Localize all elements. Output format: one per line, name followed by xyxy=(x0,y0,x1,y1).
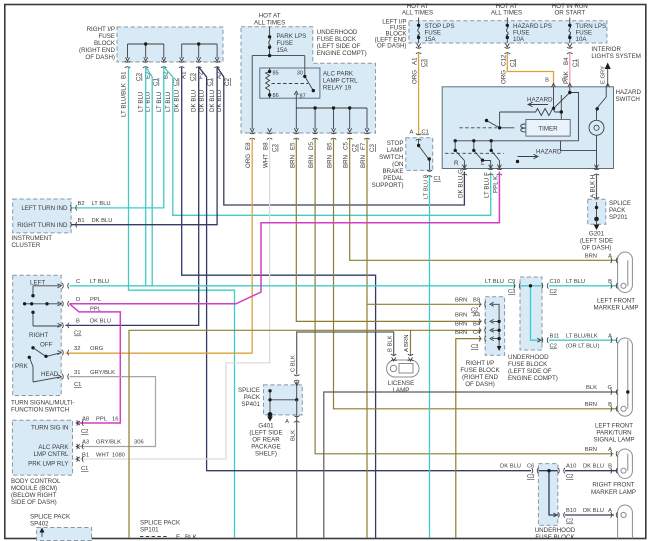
svg-text:SPLICE: SPLICE xyxy=(609,200,631,207)
svg-text:ALL TIMES: ALL TIMES xyxy=(254,20,285,27)
turn signal / multifunction switch box xyxy=(13,275,62,395)
svg-text:PEDAL: PEDAL xyxy=(383,175,404,182)
svg-text:C2: C2 xyxy=(81,429,88,435)
svg-text:BODY CONTROL: BODY CONTROL xyxy=(11,478,61,485)
svg-text:LAMP CTRL: LAMP CTRL xyxy=(323,78,358,85)
svg-text:B1: B1 xyxy=(121,71,128,79)
svg-text:A: A xyxy=(608,447,612,453)
svg-text:SP402: SP402 xyxy=(30,521,49,528)
svg-text:BRN: BRN xyxy=(308,155,315,168)
wire BRN C5 to left front marker A xyxy=(350,138,618,260)
svg-text:C2: C2 xyxy=(566,474,573,480)
svg-text:LAMP: LAMP xyxy=(387,147,404,154)
svg-text:BRN: BRN xyxy=(585,254,597,260)
interior lights system arrow xyxy=(591,46,641,87)
svg-text:PPL K: PPL K xyxy=(492,175,499,193)
svg-text:B1: B1 xyxy=(82,453,89,459)
svg-text:32: 32 xyxy=(74,346,80,352)
right I/P fuse block (lower) box xyxy=(485,297,504,356)
relay switch 30-87 xyxy=(296,68,313,98)
svg-text:C12: C12 xyxy=(500,54,507,66)
left I/P fuse block (left end of dash) box xyxy=(409,21,607,43)
svg-text:B9: B9 xyxy=(473,298,480,304)
svg-text:CLUSTER: CLUSTER xyxy=(12,242,41,249)
svg-text:C1: C1 xyxy=(572,59,579,67)
svg-text:(RIGHT END: (RIGHT END xyxy=(462,374,499,381)
svg-text:A BLK H: A BLK H xyxy=(590,175,597,198)
underhood fuse block (mid right) box xyxy=(520,277,542,350)
svg-text:LT BLU: LT BLU xyxy=(92,201,111,207)
wire ORG hazard fuse to hazard B xyxy=(507,53,553,87)
svg-text:OF DASH): OF DASH) xyxy=(465,381,495,388)
svg-text:OR START: OR START xyxy=(554,10,585,17)
svg-text:DK BLU: DK BLU xyxy=(191,90,198,112)
svg-text:C1: C1 xyxy=(153,78,160,86)
svg-text:FUSE BLOCK: FUSE BLOCK xyxy=(535,534,575,541)
svg-text:BRN: BRN xyxy=(455,322,467,328)
wire LT BLU E2 xyxy=(145,67,147,286)
svg-text:B4: B4 xyxy=(563,57,570,65)
fuse HAZARD LPS 10A xyxy=(506,18,552,44)
svg-text:LT BLU F: LT BLU F xyxy=(484,172,491,198)
svg-text:OF DASH): OF DASH) xyxy=(85,54,115,61)
ALC park lamp ctrl relay 19 xyxy=(260,68,320,98)
svg-text:C3: C3 xyxy=(190,73,197,81)
svg-text:85: 85 xyxy=(273,71,279,77)
svg-text:ORG: ORG xyxy=(412,70,419,84)
svg-text:(OR LT BLU): (OR LT BLU) xyxy=(566,344,599,350)
svg-text:PPL: PPL xyxy=(90,297,102,303)
svg-text:BRN: BRN xyxy=(343,155,350,168)
svg-text:B BLK: B BLK xyxy=(387,335,393,352)
svg-text:C BLK: C BLK xyxy=(290,355,296,372)
svg-text:BLK: BLK xyxy=(290,430,296,441)
svg-text:LT BLU B: LT BLU B xyxy=(423,174,429,199)
svg-text:PRK: PRK xyxy=(15,363,29,370)
svg-text:LT BLU: LT BLU xyxy=(165,92,172,112)
svg-text:LT BLU/BLK: LT BLU/BLK xyxy=(121,82,128,117)
svg-text:BRN: BRN xyxy=(585,447,597,453)
svg-text:SP201: SP201 xyxy=(609,214,628,221)
switch blade B-C xyxy=(554,87,579,141)
svg-text:LEFT FRONT: LEFT FRONT xyxy=(597,298,635,305)
instrument cluster box xyxy=(13,199,71,233)
svg-text:PARK LPS: PARK LPS xyxy=(277,33,307,40)
svg-text:C3: C3 xyxy=(527,474,534,480)
svg-text:BRN: BRN xyxy=(455,298,467,304)
svg-text:FUNCTION SWITCH: FUNCTION SWITCH xyxy=(11,407,69,414)
svg-text:A: A xyxy=(608,508,612,514)
svg-text:WHT: WHT xyxy=(96,453,110,459)
svg-text:LT BLU: LT BLU xyxy=(485,279,504,285)
wire DK BLU C2 to hazard R xyxy=(217,67,464,205)
svg-text:(BELOW RIGHT: (BELOW RIGHT xyxy=(11,492,57,499)
svg-text:SPLICE PACK: SPLICE PACK xyxy=(140,520,181,527)
svg-text:SHELF): SHELF) xyxy=(255,451,277,458)
wire LT BLU/BLK B11 to park/turn lamp A xyxy=(549,339,618,341)
svg-text:B: B xyxy=(545,78,549,84)
splice pack SP401 xyxy=(238,387,261,408)
svg-text:TURN SIG IN: TURN SIG IN xyxy=(31,425,68,432)
svg-text:C5: C5 xyxy=(343,142,350,150)
svg-text:INTERIOR: INTERIOR xyxy=(591,46,621,53)
svg-text:C: C xyxy=(562,78,566,84)
svg-text:C2: C2 xyxy=(550,289,557,295)
svg-text:BRN: BRN xyxy=(455,313,467,319)
svg-text:E GRY: E GRY xyxy=(601,66,607,84)
svg-text:BRN: BRN xyxy=(455,330,467,336)
svg-text:PACKAGE: PACKAGE xyxy=(251,444,280,451)
svg-text:DK BLU: DK BLU xyxy=(199,90,206,112)
svg-text:A1: A1 xyxy=(412,57,419,65)
underhood exits xyxy=(250,128,370,139)
timer switch contact xyxy=(487,121,515,128)
svg-text:SPLICE: SPLICE xyxy=(238,387,260,394)
svg-text:INSTRUMENT: INSTRUMENT xyxy=(12,235,53,242)
svg-text:HOT AT: HOT AT xyxy=(259,13,281,20)
svg-text:B5: B5 xyxy=(327,142,334,150)
svg-text:B: B xyxy=(608,279,612,285)
svg-text:C3: C3 xyxy=(136,73,143,81)
ground G401 xyxy=(267,417,273,422)
svg-text:15A: 15A xyxy=(277,47,289,54)
svg-text:LICENSE: LICENSE xyxy=(388,380,414,387)
svg-text:RIGHT I/P: RIGHT I/P xyxy=(466,360,494,367)
svg-text:TURN SIGNAL/MULTI-: TURN SIGNAL/MULTI- xyxy=(11,400,74,407)
svg-text:B10: B10 xyxy=(566,508,576,514)
svg-text:C1: C1 xyxy=(434,176,441,182)
wire BLK hazard H to SP201 xyxy=(596,174,598,199)
svg-text:G201: G201 xyxy=(589,231,605,238)
svg-text:1080: 1080 xyxy=(112,453,125,459)
underhood fuse block (left side of engine compt) box xyxy=(241,27,376,133)
svg-text:LAMP: LAMP xyxy=(393,387,410,394)
svg-text:C1: C1 xyxy=(422,130,429,136)
ground G201 xyxy=(596,219,598,226)
svg-text:D: D xyxy=(76,297,80,303)
svg-text:SPLICE PACK: SPLICE PACK xyxy=(30,514,71,521)
svg-text:ENGINE COMPT): ENGINE COMPT) xyxy=(508,375,558,382)
R contact xyxy=(455,141,464,169)
svg-text:C4: C4 xyxy=(473,330,481,336)
svg-text:UNDERHOOD: UNDERHOOD xyxy=(535,527,576,534)
svg-text:R: R xyxy=(454,160,459,167)
svg-text:ALL TIMES: ALL TIMES xyxy=(402,10,433,17)
wire LT BLU C2 to hazard L xyxy=(164,67,491,215)
svg-text:C2: C2 xyxy=(173,78,180,86)
svg-text:SWITCH: SWITCH xyxy=(616,96,640,103)
svg-text:G: G xyxy=(607,385,612,391)
svg-text:C3: C3 xyxy=(272,144,279,152)
wire BRN rear feed to B4 row xyxy=(129,330,482,538)
svg-text:(LEFT SIDE OF: (LEFT SIDE OF xyxy=(317,43,361,50)
svg-text:(LEFT SIDE OF: (LEFT SIDE OF xyxy=(508,368,552,375)
fuse TURN LPS 10A xyxy=(568,18,606,44)
svg-text:ORG: ORG xyxy=(500,70,507,84)
svg-text:OF DASH): OF DASH) xyxy=(377,43,407,50)
svg-text:30: 30 xyxy=(297,71,303,77)
svg-text:RIGHT FRONT: RIGHT FRONT xyxy=(592,482,634,489)
svg-text:306: 306 xyxy=(134,440,144,446)
svg-text:ALC PARK: ALC PARK xyxy=(323,71,354,78)
svg-text:A8: A8 xyxy=(82,417,89,423)
wire BRN B5 to park/turn lamp B xyxy=(334,138,618,409)
svg-text:SWITCH: SWITCH xyxy=(379,154,403,161)
svg-text:DK BLU: DK BLU xyxy=(90,319,111,325)
wire BRN C4 row off page xyxy=(456,339,482,538)
pin labels rotated xyxy=(121,71,232,86)
wire LT BLU C1 diag xyxy=(146,67,153,286)
svg-text:(RIGHT END: (RIGHT END xyxy=(79,47,116,54)
relay armature dashed xyxy=(272,83,309,85)
svg-text:C2: C2 xyxy=(224,78,231,86)
svg-text:D5: D5 xyxy=(308,142,315,150)
svg-text:E5: E5 xyxy=(289,142,296,150)
svg-text:DK BLU: DK BLU xyxy=(500,464,521,470)
hazard internals xyxy=(445,87,606,169)
svg-text:B11: B11 xyxy=(550,334,560,340)
svg-text:SP101: SP101 xyxy=(140,527,159,534)
svg-text:HAZARD: HAZARD xyxy=(527,97,553,104)
svg-text:FUSE BLOCK: FUSE BLOCK xyxy=(508,361,548,368)
lower bus xyxy=(455,140,578,142)
svg-text:OF DASH): OF DASH) xyxy=(582,245,612,252)
svg-text:STOP: STOP xyxy=(387,140,404,147)
svg-text:PACK: PACK xyxy=(609,207,626,214)
svg-text:C2: C2 xyxy=(550,344,557,350)
right I/P fuse block (top, right end of dash) box xyxy=(117,27,223,62)
wire color labels rotated xyxy=(121,82,223,117)
svg-text:BRAKE: BRAKE xyxy=(383,168,404,175)
svg-text:ALL TIMES: ALL TIMES xyxy=(491,10,522,17)
svg-text:G401: G401 xyxy=(258,423,274,430)
svg-text:LEFT TURN IND: LEFT TURN IND xyxy=(21,205,68,212)
svg-text:RELAY 19: RELAY 19 xyxy=(323,85,352,92)
wire DK BLU A10 to right front marker B xyxy=(565,470,618,472)
wire LT BLU/BLK B1 xyxy=(129,67,235,538)
wire LT BLU C10 to marker lamp B xyxy=(549,285,618,287)
svg-text:B4: B4 xyxy=(473,322,481,328)
left front park/turn signal lamp xyxy=(585,334,635,444)
wire ORG E8 + turn switch 32 row xyxy=(66,138,253,353)
svg-text:A10: A10 xyxy=(566,464,576,470)
svg-text:MODULE (BCM): MODULE (BCM) xyxy=(11,485,57,492)
relay output bus xyxy=(296,98,367,129)
relay coil xyxy=(266,68,270,98)
svg-text:DK BLU G: DK BLU G xyxy=(457,169,464,198)
svg-text:C: C xyxy=(76,279,80,285)
svg-text:C1: C1 xyxy=(509,59,516,67)
svg-text:C2: C2 xyxy=(352,144,359,152)
stop lamp switch box xyxy=(406,138,433,171)
svg-text:10A: 10A xyxy=(513,36,525,43)
svg-text:C3: C3 xyxy=(471,344,478,350)
svg-text:E: E xyxy=(176,534,180,541)
svg-text:B: B xyxy=(608,402,612,408)
svg-text:86: 86 xyxy=(273,93,279,99)
splice pack SP402 xyxy=(30,514,71,528)
stop lamp switch contacts xyxy=(416,134,432,177)
svg-text:GRY/BLK: GRY/BLK xyxy=(90,370,115,376)
svg-text:BRN: BRN xyxy=(585,402,597,408)
svg-text:C1: C1 xyxy=(207,78,214,86)
right front park/turn signal lamp (cut off) xyxy=(608,505,632,539)
svg-text:C2: C2 xyxy=(74,331,81,337)
svg-text:BRN: BRN xyxy=(360,155,367,168)
svg-text:A: A xyxy=(410,130,414,136)
fuse PARK LPS 15A xyxy=(268,27,306,56)
svg-text:LT BLU: LT BLU xyxy=(566,279,585,285)
svg-text:FUSE BLOCK: FUSE BLOCK xyxy=(460,367,500,374)
svg-text:MARKER LAMP: MARKER LAMP xyxy=(591,489,636,496)
wire DK BLU F2 to turn switch B xyxy=(66,67,199,325)
K contact xyxy=(491,141,499,169)
svg-text:A BRN: A BRN xyxy=(404,335,410,352)
fuse block bus bars xyxy=(128,44,218,58)
svg-text:ENGINE COMPT): ENGINE COMPT) xyxy=(317,50,367,57)
svg-text:HAZARD: HAZARD xyxy=(536,149,562,156)
underhood fuse block (bottom right) box xyxy=(538,464,557,526)
wire PNK turn fuse to hazard C xyxy=(569,53,571,87)
svg-text:A: A xyxy=(608,254,612,260)
svg-text:DK BLU: DK BLU xyxy=(583,508,604,514)
wire DK BLU A1 xyxy=(182,67,376,538)
wire DK BLU B10 to right front park/turn A xyxy=(565,514,614,516)
svg-text:C3: C3 xyxy=(508,289,515,295)
svg-text:UNDERHOOD: UNDERHOOD xyxy=(317,29,358,36)
right front marker lamp xyxy=(585,447,636,496)
hazard bottom exits xyxy=(462,165,600,176)
svg-text:HAZARD: HAZARD xyxy=(616,89,642,96)
wire BLK SP401 A off page xyxy=(296,400,298,538)
hazard switch box xyxy=(442,87,613,169)
wire ORG stop fuse to stop lamp switch xyxy=(418,53,420,135)
svg-text:16: 16 xyxy=(112,417,118,423)
svg-text:RIGHT TURN IND: RIGHT TURN IND xyxy=(17,222,68,229)
svg-text:OF REAR: OF REAR xyxy=(252,437,280,444)
svg-text:BLK: BLK xyxy=(185,534,198,541)
svg-text:BLK: BLK xyxy=(586,385,597,391)
wire DK BLU A2 to cluster xyxy=(72,67,218,225)
wire BRN F7 to B9 and off page xyxy=(367,138,482,538)
wire BRN license lamp A to B4 xyxy=(410,330,412,356)
svg-text:F7: F7 xyxy=(360,142,367,150)
svg-text:(LEFT SIDE: (LEFT SIDE xyxy=(580,238,613,245)
internal bus to relay xyxy=(252,56,305,129)
svg-text:HEAD: HEAD xyxy=(41,371,59,378)
wire LT BLU stop switch B off page xyxy=(429,176,431,538)
L contact xyxy=(474,141,491,169)
svg-text:MARKER LAMP: MARKER LAMP xyxy=(593,305,638,312)
splice pack SP201 xyxy=(588,199,606,224)
resistor xyxy=(500,95,562,128)
svg-text:RIGHT: RIGHT xyxy=(29,332,48,339)
svg-text:C6: C6 xyxy=(527,464,534,470)
svg-text:C3: C3 xyxy=(421,59,428,67)
svg-text:C1: C1 xyxy=(81,466,88,472)
svg-text:ALC PARK: ALC PARK xyxy=(38,444,69,451)
svg-text:ORG: ORG xyxy=(245,154,252,168)
svg-text:L: L xyxy=(481,160,485,167)
svg-text:15A: 15A xyxy=(425,36,437,43)
svg-text:SIDE OF DASH): SIDE OF DASH) xyxy=(11,499,57,506)
svg-text:LT BLU: LT BLU xyxy=(156,92,163,112)
svg-text:(ON: (ON xyxy=(392,161,403,168)
wire BLK license lamp B to SP401 xyxy=(297,332,394,375)
wire PPL turn switch D to BCM A8 xyxy=(70,304,121,423)
svg-text:C10: C10 xyxy=(550,279,561,285)
svg-text:LT BLU/BLK: LT BLU/BLK xyxy=(566,334,598,340)
svg-text:C1: C1 xyxy=(74,382,81,388)
svg-text:LT BLU: LT BLU xyxy=(138,92,145,112)
svg-text:LMP CNTRL: LMP CNTRL xyxy=(34,451,70,458)
svg-text:PPL: PPL xyxy=(96,417,108,423)
svg-text:WHT: WHT xyxy=(263,154,270,168)
svg-text:LEFT FRONT: LEFT FRONT xyxy=(595,423,633,430)
svg-text:BLOCK: BLOCK xyxy=(94,40,116,47)
wire PPL turn switch D to hazard K xyxy=(70,172,500,304)
svg-text:B8: B8 xyxy=(263,142,270,150)
svg-text:LT BLU: LT BLU xyxy=(90,279,109,285)
wire DK BLU C1 to marker lamp row xyxy=(199,67,531,471)
svg-text:DK BLU: DK BLU xyxy=(92,218,113,224)
svg-text:B: B xyxy=(608,464,612,470)
svg-text:PRK LMP RLY: PRK LMP RLY xyxy=(28,461,68,468)
wire GRY/BLK turn switch 31 to BCM A3 xyxy=(70,377,156,447)
svg-text:A: A xyxy=(285,419,289,425)
hazard lamp xyxy=(589,120,604,135)
timer box xyxy=(526,120,570,137)
svg-text:PARK/TURN: PARK/TURN xyxy=(596,430,631,437)
svg-text:C3: C3 xyxy=(369,144,376,152)
svg-text:FUSE: FUSE xyxy=(98,33,115,40)
svg-text:FUSE BLOCK: FUSE BLOCK xyxy=(317,36,357,43)
splice pack SP101 xyxy=(140,520,181,534)
switch internals xyxy=(25,286,61,326)
svg-text:87: 87 xyxy=(300,94,306,100)
svg-text:SIGNAL LAMP: SIGNAL LAMP xyxy=(593,437,634,444)
svg-text:A4: A4 xyxy=(473,313,481,319)
svg-text:ORG: ORG xyxy=(90,346,104,352)
svg-text:A3: A3 xyxy=(82,440,89,446)
svg-text:E8: E8 xyxy=(245,142,252,150)
BCM box xyxy=(12,420,72,475)
svg-text:10A: 10A xyxy=(576,36,588,43)
svg-text:B2: B2 xyxy=(78,201,85,207)
svg-text:SUPPORT): SUPPORT) xyxy=(372,182,404,189)
svg-text:31: 31 xyxy=(74,370,80,376)
svg-text:C2: C2 xyxy=(566,519,573,525)
svg-text:B1: B1 xyxy=(78,218,85,224)
svg-text:GRY/BLK: GRY/BLK xyxy=(96,440,121,446)
left front marker lamp xyxy=(585,252,639,312)
wire BRN E5 to A4 xyxy=(296,138,482,321)
license lamp xyxy=(387,335,420,394)
svg-text:BRN: BRN xyxy=(327,155,334,168)
svg-text:OFF: OFF xyxy=(40,342,53,349)
svg-text:DK BLU: DK BLU xyxy=(174,90,181,112)
wire WHT B8 to BCM B1 xyxy=(73,138,270,459)
wire LT BLU B2 to cluster xyxy=(72,67,164,208)
svg-text:C9: C9 xyxy=(508,279,515,285)
svg-text:LIGHTS SYSTEM: LIGHTS SYSTEM xyxy=(591,53,641,60)
svg-text:PACK: PACK xyxy=(244,394,261,401)
svg-text:B: B xyxy=(76,319,80,325)
svg-text:BRN: BRN xyxy=(289,155,296,168)
svg-text:SP401: SP401 xyxy=(241,401,260,408)
svg-text:A: A xyxy=(608,334,612,340)
wire BRN D5 to right front marker A xyxy=(315,138,613,454)
